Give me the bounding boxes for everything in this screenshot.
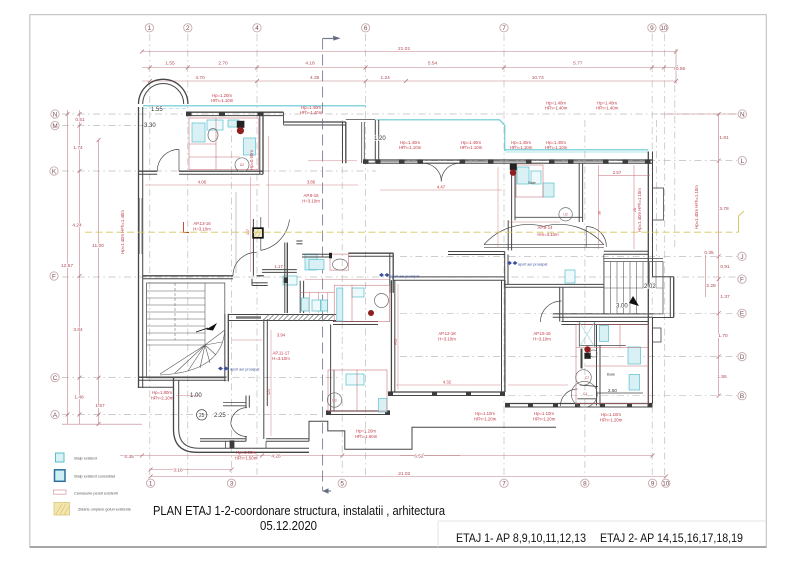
svg-text:4.24: 4.24	[72, 223, 82, 229]
svg-text:C7: C7	[585, 376, 589, 380]
junction post mid wall	[284, 277, 288, 283]
svg-text:3.18: 3.18	[173, 468, 183, 474]
svg-text:Camasuire pereti existenti: Camasuire pereti existenti	[74, 492, 118, 496]
grid circle 5 bottom	[338, 479, 346, 487]
grid axis L horizontal	[400, 160, 737, 162]
bath south wall partial	[597, 392, 643, 394]
wc ellipse top-left bath	[208, 129, 218, 142]
svg-text:J: J	[740, 254, 743, 261]
svg-text:HFh=2.10m: HFh=2.10m	[151, 396, 174, 401]
middle room north wall	[284, 121, 346, 123]
svg-text:3: 3	[230, 481, 234, 488]
svg-text:1.57: 1.57	[95, 403, 105, 409]
svg-text:4.18: 4.18	[305, 61, 315, 67]
door arc east of x253 wall	[261, 220, 290, 251]
svg-text:aport aer proaspat: aport aer proaspat	[230, 368, 259, 372]
lower stair direction arrow	[206, 323, 217, 331]
double entry door arcs in north wall	[423, 163, 441, 181]
grid axis 9 vertical	[651, 34, 653, 477]
red dim top-center room	[380, 189, 502, 191]
svg-text:aport aer proaspat: aport aer proaspat	[518, 263, 547, 267]
grid axis A horizontal	[62, 414, 320, 416]
svg-text:F: F	[740, 277, 744, 284]
svg-text:HFh=1.10m: HFh=1.10m	[545, 145, 568, 150]
svg-text:Hm=3.10m: Hm=3.10m	[537, 232, 559, 237]
grid axis D horizontal	[400, 356, 737, 358]
lower stair outline	[147, 283, 225, 378]
svg-text:PLAN ETAJ 1-2-coordonare struc: PLAN ETAJ 1-2-coordonare structura, inst…	[153, 504, 445, 518]
svg-text:1.17: 1.17	[274, 264, 283, 269]
door arc top-left room	[157, 149, 179, 171]
svg-text:0.51: 0.51	[75, 117, 85, 123]
svg-text:1.74: 1.74	[73, 145, 83, 151]
boiler circle center bath	[375, 294, 389, 308]
grid axis 6 vertical	[365, 34, 367, 477]
svg-text:12.57: 12.57	[61, 263, 73, 269]
svg-text:4.47: 4.47	[437, 185, 446, 190]
svg-text:A: A	[53, 412, 58, 419]
svg-text:H=3.10m: H=3.10m	[438, 337, 456, 342]
svg-text:4.32: 4.32	[443, 380, 452, 385]
U2 circle top-right bath	[559, 208, 572, 221]
big room west wall	[390, 280, 392, 392]
svg-text:Hp=1.80m: Hp=1.80m	[152, 390, 172, 395]
grid axis 7 vertical	[503, 34, 505, 477]
svg-text:5.54: 5.54	[428, 61, 438, 67]
posts south walls	[505, 403, 510, 407]
legend stalp existent consolidat	[55, 470, 66, 482]
wall between bath and middle room vertical	[259, 112, 261, 174]
right wing small fixtures	[565, 270, 575, 283]
svg-text:2.28: 2.28	[706, 283, 716, 289]
svg-text:25: 25	[199, 413, 205, 419]
stair upper south wall	[553, 313, 653, 315]
svg-text:2.25: 2.25	[214, 413, 226, 419]
right wing partition x560	[559, 287, 561, 321]
svg-text:1.20: 1.20	[374, 136, 386, 142]
svg-text:Hp=1.40m HFh=1.10m: Hp=1.40m HFh=1.10m	[694, 185, 699, 229]
svg-text:0.35: 0.35	[125, 454, 135, 460]
partition wall x253 left room	[252, 219, 254, 276]
grid circle 4 top	[253, 24, 261, 32]
grid axis 8 vertical	[584, 120, 586, 477]
right dim chain x705	[705, 250, 707, 297]
ticks bottom y476	[149, 475, 153, 479]
svg-text:1.48: 1.48	[74, 394, 84, 400]
bay window sill lines	[200, 438, 246, 440]
red dim corridor	[305, 279, 389, 281]
wardrobe line left room	[235, 192, 237, 273]
wall below top-left rooms (K axis)	[139, 170, 158, 172]
extra axis 10b vertical	[674, 85, 676, 250]
bottom dim chain y455	[120, 455, 460, 457]
svg-text:2.57: 2.57	[613, 170, 622, 175]
hall south wall under J	[505, 283, 604, 285]
svg-text:Hp=1.20m: Hp=1.20m	[356, 429, 376, 434]
door arc right wing	[586, 227, 606, 247]
right bath cluster north wall	[561, 321, 648, 323]
shaft wall east of middle room	[361, 122, 363, 163]
svg-text:1.00: 1.00	[190, 393, 202, 399]
grid axis 5 vertical	[341, 120, 343, 477]
top dim chain 21.02	[142, 51, 676, 53]
stair east wall	[224, 314, 226, 381]
ticks left x79	[78, 112, 82, 116]
red partitions small baths	[308, 293, 310, 314]
red dim room ap15	[508, 384, 568, 386]
grid circle C left	[51, 373, 59, 381]
left dim chain x67	[67, 110, 69, 424]
grid axis 3 vertical	[231, 120, 233, 477]
ticks top row1	[140, 50, 144, 54]
svg-text:1.24: 1.24	[381, 75, 391, 81]
grid circle 10 top	[660, 24, 668, 32]
middle room east wall vertical	[342, 122, 344, 163]
svg-text:Stalp existent: Stalp existent	[74, 457, 98, 461]
svg-text:9: 9	[651, 481, 655, 488]
hall west wall	[504, 252, 506, 288]
window mid lines long north wall	[380, 161, 422, 163]
svg-text:U3: U3	[332, 398, 336, 402]
svg-text:4.28: 4.28	[271, 454, 281, 460]
grid circle 1 bottom	[146, 479, 154, 487]
stair upper enclosure west	[603, 255, 605, 314]
extra axis 9b vertical	[656, 120, 658, 260]
ticks bottom y469	[149, 468, 153, 472]
svg-text:1: 1	[149, 481, 153, 488]
door arc at F wall left room	[233, 252, 257, 275]
grid axis C horizontal	[62, 377, 340, 379]
cyan terrace band top-left	[143, 105, 366, 107]
grid circle 9 bottom	[648, 479, 656, 487]
top-right bath west wall	[511, 163, 513, 220]
U2 circle top-left bath	[235, 158, 249, 172]
grid circle D right	[738, 352, 746, 360]
svg-text:Zidarie umplere goluri exis: Zidarie umplere goluri existente	[78, 508, 131, 512]
svg-text:3.86: 3.86	[307, 180, 316, 185]
svg-text:Baie: Baie	[607, 372, 616, 377]
bedroom red dims right wing	[598, 165, 600, 249]
upper stair mid landing line	[604, 287, 663, 289]
grid axis J horizontal	[400, 255, 737, 257]
svg-text:4: 4	[255, 25, 259, 32]
circle 25	[197, 410, 207, 420]
bay corner outer curve	[174, 429, 310, 452]
svg-text:Hp=1.10m: Hp=1.10m	[534, 411, 554, 416]
terrace stepped edge	[309, 421, 556, 449]
right dim chain x719	[718, 114, 720, 396]
svg-text:1: 1	[148, 25, 152, 32]
posts mid south wall	[326, 411, 331, 415]
svg-text:C: C	[53, 375, 58, 382]
svg-text:0.56: 0.56	[676, 66, 686, 72]
svg-text:D: D	[740, 354, 745, 361]
flue symbol right cluster	[584, 346, 590, 352]
grid circle F right	[738, 275, 746, 283]
grid circle 9 top	[648, 24, 656, 32]
lower stair winder fan	[205, 330, 225, 345]
svg-text:Baie: Baie	[528, 181, 536, 185]
top-left bath red partitions	[189, 118, 259, 170]
top-right bath red lines	[516, 165, 543, 197]
svg-text:E: E	[740, 311, 744, 318]
grid circle 7 top	[500, 24, 508, 32]
red dim hall	[508, 221, 560, 223]
svg-text:3.84: 3.84	[73, 327, 83, 333]
upper stair outline	[604, 262, 663, 314]
grid circle J right	[738, 252, 746, 260]
svg-text:F: F	[52, 273, 56, 280]
lower bath west wall	[330, 325, 332, 412]
svg-text:0.35: 0.35	[704, 250, 714, 256]
grid circle 2 top	[184, 24, 192, 32]
flue symbol top-right bath	[510, 164, 517, 170]
svg-text:AP.13-16: AP.13-16	[193, 221, 211, 226]
top-right bath south wall	[515, 216, 583, 218]
arch bay outer arc	[139, 79, 188, 104]
top-left room north wall	[186, 111, 284, 113]
corridor beam above big room	[394, 276, 505, 278]
svg-text:121: 121	[267, 389, 271, 395]
south wall right section	[505, 403, 653, 405]
ticks left x99	[97, 138, 101, 142]
bottom dim line 6.52	[400, 455, 652, 457]
entry hall wall above yellow line	[348, 252, 393, 254]
bay double door arcs	[231, 408, 247, 424]
svg-text:AP.11-17: AP.11-17	[272, 351, 290, 356]
svg-text:HFh=1.20m: HFh=1.20m	[474, 417, 497, 422]
upper stair treads vertical	[610, 262, 612, 288]
entry hall vertical	[389, 253, 391, 293]
cyan balcony top-center	[377, 120, 505, 151]
bay room north lip	[223, 402, 246, 404]
bottom dim chain y476	[151, 476, 666, 478]
svg-text:U2: U2	[563, 213, 567, 217]
svg-text:AP.8-14: AP.8-14	[538, 225, 554, 230]
svg-text:21.02: 21.02	[398, 46, 410, 52]
yellow coordination line	[85, 211, 744, 232]
svg-text:1.37: 1.37	[720, 294, 730, 300]
svg-text:2: 2	[186, 25, 190, 32]
duct niche right wall lower	[653, 328, 662, 342]
svg-text:6.52: 6.52	[414, 454, 424, 460]
svg-text:1.55: 1.55	[165, 61, 175, 67]
posts long north wall	[363, 159, 369, 163]
svg-text:7: 7	[502, 25, 506, 32]
bottom dim chain y469	[151, 469, 232, 471]
svg-text:N: N	[53, 111, 58, 118]
cyan small bath fixtures	[302, 298, 310, 311]
left dim bottom connector	[62, 423, 142, 425]
lower stair flight divider	[204, 283, 206, 345]
svg-text:4.35: 4.35	[310, 75, 320, 81]
svg-text:aport aer proaspat: aport aer proaspat	[390, 274, 419, 278]
center bath south wall	[333, 321, 378, 323]
red dim big room	[397, 284, 399, 390]
svg-text:5: 5	[340, 481, 344, 488]
grid axis 2 vertical	[187, 34, 189, 477]
svg-text:HFh=1.60m: HFh=1.60m	[355, 434, 378, 439]
upper stair direction arrow	[629, 296, 639, 306]
bay west wall	[173, 377, 175, 429]
wall x285 middle	[284, 243, 286, 314]
svg-text:1.55: 1.55	[151, 107, 163, 113]
svg-text:HFh=1.40m: HFh=1.40m	[300, 110, 323, 115]
svg-text:10: 10	[662, 481, 670, 488]
flue wall dark	[581, 349, 583, 369]
right dim riser N	[660, 113, 737, 115]
wc ellipse center	[333, 259, 348, 270]
ticks top row2	[148, 66, 152, 70]
center-bottom bath fixtures	[379, 399, 388, 413]
ticks left x67	[66, 112, 70, 116]
svg-text:M: M	[52, 123, 57, 130]
U3 circle bottom bath	[327, 393, 341, 407]
grid circle N left	[51, 110, 59, 118]
right stair bay	[653, 276, 674, 278]
svg-text:0.91: 0.91	[720, 264, 730, 270]
right cluster fixtures	[600, 326, 609, 342]
bay east sill continuation	[266, 438, 309, 440]
svg-text:3.94: 3.94	[277, 333, 286, 338]
grid circle B right	[738, 392, 746, 400]
big room east wall	[501, 280, 503, 392]
top dim chain row3	[142, 80, 676, 82]
center bath red partitions	[334, 285, 390, 322]
grid circle N right	[738, 110, 746, 118]
red dim bay room	[176, 394, 200, 396]
center bath shower	[337, 288, 343, 321]
lower stair walk line	[174, 283, 176, 340]
right cluster red partitions	[576, 325, 648, 404]
bay door jamb wall	[245, 396, 247, 408]
title block lines	[438, 520, 766, 522]
svg-text:Hp=1.40m HFh=1.10m: Hp=1.40m HFh=1.10m	[637, 188, 642, 232]
grid circle 1 top	[145, 24, 153, 32]
svg-text:7: 7	[502, 481, 506, 488]
south wall mid section	[326, 410, 390, 412]
grid axis 1 vertical	[149, 34, 151, 477]
short wall y241 middle	[296, 240, 302, 242]
legend zidarie	[54, 503, 70, 516]
lower stair treads	[147, 290, 205, 292]
flue symbol top-left bath	[237, 121, 245, 128]
long north wall with windows	[363, 159, 653, 161]
grid circle 7 bottom	[500, 479, 508, 487]
left dim chain x79	[79, 110, 81, 424]
hall west wall stub	[507, 220, 509, 250]
duct niche right wall upper	[653, 188, 664, 220]
svg-text:Stalp existent consolidat: Stalp existent consolidat	[74, 475, 116, 479]
window break left wall sills	[138, 198, 140, 254]
fan circles right cluster	[576, 370, 592, 386]
grid circle 10 bottom	[662, 479, 670, 487]
svg-text:Hp=1.10m: Hp=1.10m	[475, 411, 495, 416]
svg-text:38: 38	[598, 211, 602, 215]
red dim line y366	[584, 365, 648, 367]
svg-text:2.50: 2.50	[608, 388, 617, 393]
svg-text:4.70: 4.70	[195, 75, 205, 81]
svg-text:HFh=1.40m: HFh=1.40m	[596, 106, 619, 111]
svg-text:B: B	[740, 393, 744, 400]
svg-text:U2: U2	[240, 163, 244, 167]
red dim top-middle room	[266, 184, 358, 186]
svg-text:ETAJ 2- AP 14,15,16,17,18,19: ETAJ 2- AP 14,15,16,17,18,19	[600, 531, 743, 545]
F-wall step extension	[252, 282, 268, 284]
svg-text:C4: C4	[583, 392, 587, 396]
wide opening sill	[484, 244, 604, 246]
door arc bath lower-left	[560, 389, 577, 406]
svg-text:1.55: 1.55	[717, 374, 727, 380]
top-right bath fixtures	[517, 167, 529, 184]
grid axis K horizontal	[62, 170, 376, 172]
stair north wall	[604, 258, 663, 260]
svg-text:6: 6	[364, 25, 368, 32]
shower X pattern right cluster	[579, 322, 594, 347]
shower room walls	[578, 322, 580, 347]
wc room red lines	[330, 254, 349, 270]
svg-text:L: L	[741, 158, 745, 165]
red dim left room	[145, 184, 260, 186]
svg-text:N: N	[740, 111, 745, 118]
left dim chain x99	[98, 140, 100, 424]
bridge wall over shaft	[346, 118, 376, 120]
grid axis F horizontal	[62, 276, 737, 278]
svg-text:9: 9	[650, 25, 654, 32]
section line vertical	[323, 36, 341, 494]
svg-text:1.70: 1.70	[718, 333, 728, 339]
top-left bath fixtures	[192, 123, 205, 142]
left mid bath fixtures near stairs	[305, 254, 317, 270]
lower stair curved stringer	[147, 330, 225, 375]
svg-text:HFh=1.50m: HFh=1.50m	[235, 456, 258, 461]
svg-text:HFh=1.10m: HFh=1.10m	[399, 145, 422, 150]
grid circle E right	[738, 309, 746, 317]
upper stair lower treads	[610, 288, 612, 314]
wall x300 lower middle	[299, 281, 301, 313]
svg-text:HFh=1.10m: HFh=1.10m	[460, 145, 483, 150]
svg-text:Hp=1.00m: Hp=1.00m	[236, 450, 256, 455]
top dim risers at axes	[675, 49, 677, 84]
svg-text:11.00: 11.00	[92, 243, 104, 249]
svg-text:HFh=1.20m: HFh=1.20m	[533, 417, 556, 422]
arch bay inner arc	[143, 84, 184, 104]
tangent line big fan	[580, 385, 598, 387]
main wide double door arcs	[484, 224, 544, 244]
grid circle 3 bottom	[227, 479, 235, 487]
svg-text:H=3.10m: H=3.10m	[302, 199, 320, 204]
stair south wall	[139, 376, 227, 378]
bay jamb post	[230, 440, 235, 448]
svg-text:2.02: 2.02	[644, 284, 656, 290]
svg-text:1.81: 1.81	[719, 135, 729, 141]
grid axis M horizontal	[62, 125, 146, 127]
svg-text:HFh=1.10m: HFh=1.10m	[510, 145, 533, 150]
svg-text:4.06: 4.06	[198, 180, 207, 185]
svg-text:05.12.2020: 05.12.2020	[260, 519, 317, 533]
wall x265 terrace room	[263, 319, 265, 439]
svg-text:5.77: 5.77	[573, 61, 583, 67]
door arc into bath cluster	[540, 301, 561, 322]
svg-text:AP.12-18: AP.12-18	[438, 331, 456, 336]
grid circle F left	[50, 272, 58, 280]
ticks top row3	[148, 79, 152, 83]
hatched slab band	[263, 315, 269, 321]
red marks upper-left of yellow line	[184, 222, 190, 233]
corridor south wall segment	[262, 269, 297, 271]
top dim chain row2	[142, 67, 677, 69]
grid axis E horizontal	[400, 312, 737, 314]
